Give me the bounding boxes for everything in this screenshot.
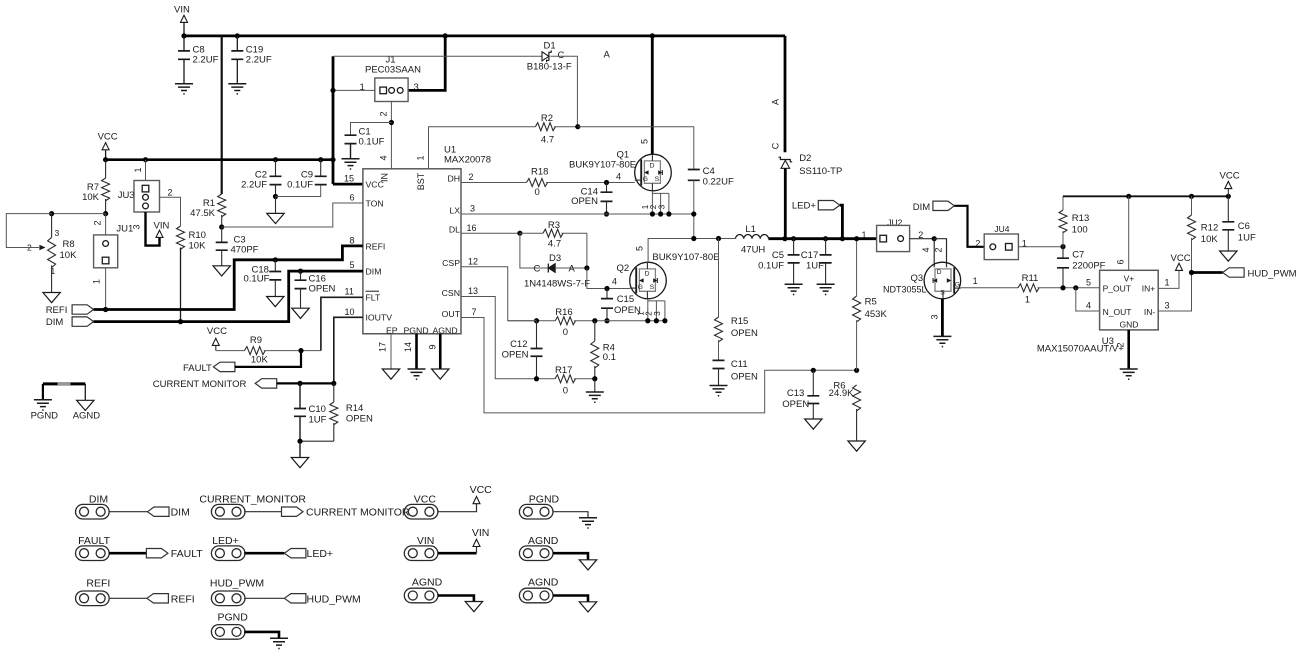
potentiometer R8 (51, 214, 53, 238)
svg-text:D: D (645, 270, 650, 277)
node DL-R3-D3 (517, 231, 522, 236)
ground C10 R14 (299, 441, 301, 457)
svg-text:BUK9Y107-80E: BUK9Y107-80E (652, 252, 719, 263)
node REFI-JU1 (103, 307, 108, 312)
wire LX bus (461, 213, 694, 215)
wire R9 to FLT (264, 350, 321, 352)
svg-text:V+: V+ (1124, 274, 1135, 284)
node JU4-R13-C7 (1060, 244, 1065, 249)
svg-text:FAULT: FAULT (78, 535, 110, 547)
node LED-C17 (823, 236, 828, 241)
wire pad AGND col4 r3 (553, 596, 588, 602)
node OUT-R5-R6 (854, 368, 859, 373)
svg-text:PGND: PGND (529, 494, 560, 506)
svg-text:VCC: VCC (470, 484, 493, 496)
inductor L1 (736, 235, 769, 239)
resistor R4 (594, 321, 596, 341)
resistor R1 (218, 194, 226, 217)
ground pad PGND (270, 638, 288, 648)
wire pad AGND (438, 596, 474, 602)
net flag DIM (pad) (148, 507, 170, 516)
svg-text:PEC03SAAN: PEC03SAAN (365, 65, 421, 76)
node BST-D1-C4 (575, 124, 580, 129)
node LED-R5 (854, 236, 859, 241)
svg-text:OPEN: OPEN (782, 399, 809, 410)
wire BST trace (429, 127, 536, 169)
node VCC-R7 (103, 157, 108, 162)
svg-text:VCC: VCC (98, 132, 118, 143)
svg-text:4.7: 4.7 (548, 239, 561, 250)
svg-text:OUT: OUT (442, 309, 461, 319)
wire U3 V+ riser (1128, 196, 1130, 270)
svg-text:2: 2 (168, 187, 173, 197)
svg-text:0.1UF: 0.1UF (758, 261, 784, 272)
svg-text:13: 13 (468, 286, 478, 296)
svg-text:C12: C12 (510, 339, 527, 350)
svg-text:1: 1 (360, 82, 365, 93)
svg-text:PGND: PGND (31, 411, 59, 422)
svg-text:14: 14 (403, 342, 413, 352)
wire REFI trace (94, 246, 363, 310)
capacitor C7 (1062, 247, 1064, 259)
ground C3 (213, 266, 230, 276)
wire pad PGND col4 (553, 512, 588, 518)
svg-text:2.2UF: 2.2UF (241, 180, 267, 191)
node CSP-C12 (534, 318, 539, 323)
svg-text:10K: 10K (189, 241, 207, 252)
wire DH trace (461, 182, 527, 184)
svg-text:C15: C15 (617, 294, 634, 305)
svg-text:HUD_PWM: HUD_PWM (210, 577, 264, 589)
svg-text:0: 0 (563, 386, 568, 397)
svg-text:10K: 10K (1201, 234, 1219, 245)
wire VIN to Q1 drain (651, 36, 654, 154)
ground C16 (292, 308, 309, 318)
svg-text:AGND: AGND (412, 577, 443, 589)
wire JU1 to REFI (105, 268, 107, 310)
svg-text:2.2UF: 2.2UF (193, 55, 219, 66)
node LED-D2 (782, 236, 787, 241)
ground R6 (848, 441, 865, 451)
svg-text:10K: 10K (251, 355, 269, 366)
node CSP-R4 (592, 318, 597, 323)
svg-text:0.22UF: 0.22UF (703, 177, 734, 188)
resistor R16 (555, 317, 575, 325)
capacitor C17 (825, 239, 827, 255)
capacitor C10 (299, 383, 301, 408)
resistor R6 (853, 385, 861, 411)
wire VCC vertical (332, 56, 335, 184)
wire Q3 drain risers (933, 239, 935, 268)
svg-text:VCC: VCC (1220, 171, 1240, 182)
wire U3 IN+ to VCC (1158, 271, 1179, 289)
svg-text:JU3: JU3 (118, 190, 135, 201)
node C15-CSP (604, 318, 609, 323)
ground C19 (228, 84, 246, 94)
wire N_OUT loop (1076, 288, 1100, 311)
svg-text:DH: DH (447, 174, 460, 184)
node rail-U3V+ (1126, 194, 1131, 199)
svg-text:1UF: 1UF (309, 415, 327, 426)
svg-text:S: S (655, 176, 660, 183)
node VCC-bus (330, 157, 335, 162)
svg-text:R12: R12 (1201, 223, 1218, 234)
svg-text:4: 4 (1086, 301, 1091, 311)
svg-text:C17: C17 (801, 250, 818, 261)
svg-text:6: 6 (1116, 259, 1126, 264)
node R7-R8-JU1 (103, 211, 108, 216)
svg-text:AGND: AGND (433, 326, 458, 336)
svg-text:1: 1 (973, 276, 978, 286)
wire PGND-AGND tie (43, 382, 85, 385)
svg-text:R15: R15 (731, 316, 748, 327)
svg-text:R8: R8 (63, 239, 75, 250)
node DIM-R10 (178, 319, 183, 324)
svg-text:IOUTV: IOUTV (366, 313, 393, 323)
svg-text:D: D (937, 269, 942, 276)
svg-text:1: 1 (92, 279, 102, 284)
svg-text:REFI: REFI (171, 593, 195, 605)
svg-text:10K: 10K (60, 250, 78, 261)
ground CSN (594, 379, 596, 392)
svg-text:OPEN: OPEN (731, 328, 758, 339)
svg-text:B180-13-F: B180-13-F (527, 62, 572, 73)
wire Q2 gate (587, 268, 630, 289)
svg-text:OPEN: OPEN (731, 372, 758, 383)
svg-text:LED+: LED+ (307, 548, 334, 560)
wire U3 GND (1127, 330, 1130, 369)
svg-text:10K: 10K (82, 192, 100, 203)
svg-text:0: 0 (535, 187, 540, 198)
svg-text:VCC: VCC (207, 326, 227, 337)
svg-text:4: 4 (921, 247, 931, 252)
wire R14 to C10 gnd (300, 440, 334, 442)
node LX Q1 s2 (658, 211, 663, 216)
node OUT-C13 (811, 368, 816, 373)
node rail-R12 (1189, 194, 1194, 199)
svg-text:C5: C5 (772, 250, 784, 261)
svg-text:C7: C7 (1072, 250, 1084, 261)
node VCC-C2 (273, 157, 278, 162)
svg-text:47.5K: 47.5K (190, 208, 215, 219)
resistor R17 (555, 375, 576, 383)
wire R18 to Q1 gate (546, 182, 635, 184)
capacitor C18 (274, 260, 276, 272)
wire Q2 source pins (647, 299, 649, 321)
svg-text:Q3: Q3 (911, 273, 924, 284)
capacitor C8 (183, 36, 185, 51)
svg-text:9: 9 (428, 344, 438, 349)
node P_OUT-N_OUT (1073, 285, 1078, 290)
svg-text:L1: L1 (745, 224, 756, 235)
svg-text:VIN: VIN (174, 5, 190, 16)
capacitor C3 (221, 227, 223, 242)
node D3-R3-Q2gate (584, 265, 589, 270)
wire BST node to C4 (578, 127, 694, 170)
ground C6 (1220, 251, 1237, 261)
diode D2 (779, 157, 793, 162)
ground Q3 (933, 336, 951, 346)
node VCC-J1p1 (330, 88, 335, 93)
svg-text:17: 17 (378, 342, 388, 352)
svg-text:1N4148WS-7-F: 1N4148WS-7-F (524, 279, 590, 290)
wire R7 to R8 (52, 213, 106, 215)
IC U3 MAX15070AAUT/V+ (1100, 270, 1159, 330)
resistor R18 (527, 179, 548, 187)
svg-text:C: C (771, 142, 781, 149)
wire DL trace (461, 232, 520, 234)
node C14-LX (604, 211, 609, 216)
svg-text:1: 1 (1165, 277, 1170, 287)
node CM-C10 (297, 381, 302, 386)
wire R2 to node (554, 126, 578, 128)
capacitor C4 (688, 170, 700, 181)
svg-text:1: 1 (1025, 295, 1030, 306)
wire J1 pin2 down (390, 102, 392, 169)
svg-text:R11: R11 (1022, 273, 1039, 284)
ground PGND tie (42, 384, 44, 400)
wire J1 pin1 to VCC (333, 89, 375, 91)
resistor R13 (1062, 196, 1064, 210)
wire VIN to J1 pin3 (408, 36, 445, 91)
wire R8 wiper loop (6, 214, 51, 248)
svg-text:OPEN: OPEN (346, 414, 373, 425)
node J1p2-C1 (389, 120, 394, 125)
wire TON trace (222, 203, 363, 227)
svg-text:4.7: 4.7 (541, 135, 554, 146)
svg-text:VIN: VIN (417, 535, 435, 547)
wire JU2 pin2 (910, 238, 935, 240)
svg-text:A: A (604, 50, 611, 61)
svg-text:2: 2 (469, 172, 474, 182)
svg-text:1UF: 1UF (1238, 233, 1256, 244)
pin EP ground (390, 334, 392, 369)
svg-text:NDT3055L: NDT3055L (883, 285, 927, 295)
wire OUT trace (461, 318, 857, 413)
wire pad VCC (438, 504, 477, 512)
node DIM-C16 (298, 269, 303, 274)
node LX-C4 (691, 211, 696, 216)
svg-text:7: 7 (472, 307, 477, 317)
resistor R5 (856, 239, 858, 296)
wire pad VIN (438, 552, 477, 555)
capacitor C11 (718, 340, 720, 360)
svg-text:R5: R5 (865, 297, 877, 308)
svg-text:3: 3 (658, 204, 667, 209)
wire VIN to R1 (221, 36, 223, 194)
wire Q3 gate to R11 (961, 287, 1018, 289)
wire R11 to U3 (1038, 287, 1100, 289)
svg-text:C4: C4 (703, 166, 715, 177)
node C10 gnd (297, 439, 302, 444)
wire U3 IN- riser (1158, 273, 1191, 312)
svg-text:16: 16 (467, 223, 477, 233)
svg-text:IN+: IN+ (1142, 284, 1156, 294)
svg-text:47UH: 47UH (741, 245, 765, 256)
node REFI-C18 (273, 257, 278, 262)
svg-text:15: 15 (344, 174, 354, 184)
svg-text:3: 3 (653, 311, 662, 316)
ground C2 C9 (275, 197, 277, 214)
svg-text:10: 10 (345, 307, 355, 317)
node VCC-C9 (318, 157, 323, 162)
wire pad HUD_PWM (244, 597, 284, 599)
svg-text:N_OUT: N_OUT (1103, 307, 1132, 317)
node gate-C15 (604, 286, 609, 291)
svg-text:MAX15070AAUT/V+: MAX15070AAUT/V+ (1037, 344, 1124, 355)
resistor R7 (105, 160, 107, 178)
resistor R10 (177, 226, 185, 249)
svg-text:LED+: LED+ (792, 201, 816, 212)
svg-text:6: 6 (350, 192, 355, 202)
ground pad AGND col4 r2 (579, 560, 596, 570)
node VIN-J1p3 (443, 33, 448, 38)
wire C12 top (508, 320, 537, 322)
node CSN-C12 (534, 376, 539, 381)
svg-text:A: A (569, 264, 576, 275)
svg-text:5: 5 (635, 246, 645, 251)
node rail-C6 (1226, 194, 1231, 199)
wire pad DIM (109, 511, 147, 513)
svg-text:CSP: CSP (442, 258, 460, 268)
svg-text:REFI: REFI (366, 241, 386, 251)
svg-text:CURRENT_MONITOR: CURRENT_MONITOR (199, 494, 306, 506)
svg-text:DIM: DIM (913, 202, 931, 213)
node VIN-Q1D (650, 33, 655, 38)
pin AGND ground (439, 334, 442, 369)
resistor R9 (245, 347, 266, 355)
svg-text:R18: R18 (531, 166, 548, 177)
resistor R11 (1018, 284, 1039, 292)
svg-text:LX: LX (449, 206, 460, 216)
svg-text:AGND: AGND (528, 535, 559, 547)
svg-text:470PF: 470PF (231, 245, 259, 256)
wire LED+ flag (840, 205, 843, 239)
svg-text:1: 1 (862, 230, 867, 240)
ground C11 (710, 386, 728, 396)
capacitor C14 (606, 183, 608, 193)
svg-text:0.1: 0.1 (603, 352, 616, 363)
wire pad CM (244, 511, 283, 513)
pin PGND ground (415, 334, 418, 369)
power flag VIN (pad) (473, 539, 480, 546)
node LX-C4 bottom (691, 236, 696, 241)
net flag LED+ (pad) (284, 549, 306, 558)
net flag REFI (pad) (147, 594, 169, 603)
svg-text:A: A (771, 99, 781, 105)
svg-text:CURRENT MONITOR: CURRENT MONITOR (153, 379, 247, 390)
svg-text:5: 5 (1086, 277, 1091, 287)
node VIN-C19 (235, 33, 240, 38)
svg-text:G: G (643, 176, 648, 183)
wire Q3 source (941, 299, 944, 337)
wire pad REFI (109, 597, 147, 599)
svg-text:R2: R2 (541, 113, 553, 124)
svg-text:3: 3 (132, 224, 142, 229)
capacitor C15 (606, 289, 608, 299)
node R11-C7 (1060, 285, 1065, 290)
wire C9 bottom (276, 185, 321, 197)
svg-text:2: 2 (93, 220, 103, 225)
node R1-C3-TON (219, 224, 224, 229)
node LED-flag (840, 236, 845, 241)
ground C18 (267, 297, 284, 307)
svg-text:1: 1 (133, 167, 143, 172)
svg-text:0.1UF: 0.1UF (244, 274, 270, 285)
svg-text:REFI: REFI (46, 305, 68, 316)
svg-text:2: 2 (379, 111, 389, 116)
wire JU4 pin1 to R13/C7 (1018, 246, 1063, 248)
ground C17 (817, 284, 835, 294)
svg-text:OPEN: OPEN (571, 196, 598, 207)
svg-text:OPEN: OPEN (502, 350, 529, 361)
ground U3 (1120, 369, 1138, 379)
svg-text:4: 4 (379, 155, 389, 160)
svg-text:G: G (955, 281, 960, 288)
resistor R3 (520, 232, 543, 234)
svg-text:S: S (650, 284, 655, 291)
svg-text:2: 2 (1116, 342, 1126, 347)
node VIN-C8 (181, 33, 186, 38)
svg-text:C: C (534, 264, 541, 275)
power flag VCC (pad) (473, 497, 480, 504)
wire Q2 drain (648, 239, 694, 263)
svg-text:2: 2 (934, 247, 944, 252)
svg-text:FAULT: FAULT (183, 363, 212, 374)
svg-text:1: 1 (416, 155, 426, 160)
svg-text:FLT: FLT (366, 293, 381, 303)
svg-text:AGND: AGND (73, 411, 101, 422)
svg-text:R16: R16 (555, 307, 572, 318)
svg-text:R3: R3 (548, 220, 560, 231)
svg-text:453K: 453K (865, 309, 888, 320)
wire D1 cathode to R2 node (550, 56, 577, 126)
capacitor C1 (351, 123, 392, 136)
wire R10 to DIM net (180, 248, 182, 322)
wire IOUTV trace (334, 317, 363, 383)
wire VCC bus (106, 158, 333, 161)
svg-text:VIN: VIN (472, 527, 490, 539)
wire VCC to D1 (333, 55, 542, 57)
svg-text:D: D (650, 162, 655, 169)
wire D2 to LED+ rail (784, 168, 787, 238)
svg-text:2.2UF: 2.2UF (246, 55, 272, 66)
node R8 top (49, 211, 54, 216)
svg-text:D3: D3 (549, 253, 561, 264)
svg-text:EP: EP (386, 326, 398, 336)
wire LX to L1 (694, 238, 736, 240)
wire pad AGND col4 r2 (553, 553, 588, 560)
svg-text:2: 2 (975, 239, 980, 249)
resistor R12 (1191, 196, 1193, 215)
ground pad AGND (465, 602, 482, 612)
node CSN-R4-gnd (592, 376, 597, 381)
svg-text:R14: R14 (346, 403, 363, 414)
net flag HUD_PWM (pad) (284, 594, 306, 603)
node C2-C9 gnd (273, 194, 278, 199)
svg-text:JU4: JU4 (994, 224, 1009, 234)
svg-text:0.1UF: 0.1UF (359, 137, 385, 148)
capacitor C5 (793, 239, 795, 255)
svg-text:C10: C10 (309, 404, 326, 415)
svg-text:BUK9Y107-80E: BUK9Y107-80E (569, 160, 636, 171)
svg-text:D1: D1 (544, 41, 556, 52)
diode D3 (520, 233, 548, 268)
svg-text:R13: R13 (1072, 213, 1089, 224)
svg-text:3: 3 (55, 228, 60, 238)
wire DIM to JU4 (954, 206, 984, 247)
svg-text:5: 5 (350, 260, 355, 270)
